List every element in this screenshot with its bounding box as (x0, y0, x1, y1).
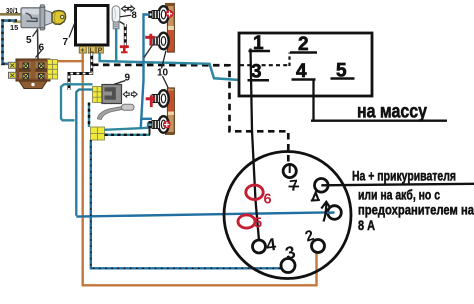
wire blue dotted from block down to circle term3 (91, 140, 281, 268)
wire striped from box7 middle terminal (90, 53, 93, 75)
svg-text:6: 6 (39, 43, 45, 54)
wire 30/1 (olive) (0, 13, 22, 16)
wire teal block to horn (105, 124, 153, 130)
wire checkered block to horn (105, 134, 151, 136)
terminal 3 (281, 259, 295, 273)
wire to +12V text (321, 184, 474, 186)
horn B2 (148, 116, 168, 133)
wire switch to relay (37, 29, 40, 59)
relay left pins (9, 62, 17, 68)
lever (steering stalk) (97, 107, 122, 120)
wire teal pins outer loop (61, 84, 93, 120)
horns 10: bottom assembly bracket (165, 88, 174, 135)
svg-text:7: 7 (63, 37, 69, 48)
relay right pin block (48, 60, 58, 80)
terminal 2 (312, 240, 325, 253)
label 5 + leader (33, 30, 38, 37)
svg-text:5: 5 (254, 216, 262, 232)
ignition switch 5 (21, 5, 66, 30)
terminal 4 (253, 240, 266, 253)
svg-text:6: 6 (264, 192, 272, 208)
svg-text:30/1: 30/1 (6, 6, 18, 15)
wire blue-black checkered from left edge (3, 21, 18, 64)
horn A1 plus terminal (166, 10, 174, 18)
terminal 7 (283, 164, 296, 177)
box 1-5 (239, 33, 372, 96)
ground red horn B1 (146, 95, 155, 107)
svg-text:5: 5 (26, 35, 32, 46)
horns 10: top assembly bracket (165, 3, 174, 52)
connector 9 (93, 85, 122, 104)
terminal 1 (blue arrow) (328, 206, 342, 220)
label 10 + leaders (162, 51, 167, 69)
glyph d (311, 193, 320, 201)
horn B1 (152, 90, 169, 107)
wire checkered from pin9 down to block (88, 103, 90, 128)
svg-text:8: 8 (132, 10, 137, 21)
horn B2 plus terminal (163, 121, 171, 129)
wire from 4 to massa underline (312, 80, 314, 122)
wire black from 1 to circle terminal 4 (251, 49, 260, 241)
wire teal lamp down (115, 29, 118, 62)
ground red horn A2 (145, 34, 154, 46)
label 9 + leader (114, 81, 126, 85)
svg-text:15: 15 (10, 23, 18, 32)
lamp arrows (122, 6, 135, 12)
wire blue main horizontal to circle (76, 212, 327, 216)
terminal 6 red (246, 185, 263, 199)
relay contacts (23, 63, 44, 79)
svg-text:10: 10 (157, 68, 169, 79)
big circle connector (224, 152, 351, 279)
connector 9 arrows (123, 91, 137, 97)
wire orange relay to vertical (58, 60, 85, 62)
svg-text:или на акб, но с: или на акб, но с (358, 187, 440, 203)
horn A2 (152, 33, 169, 50)
svg-text:8 А: 8 А (358, 217, 375, 233)
lamp 8 (112, 6, 120, 29)
box 7 (76, 6, 109, 46)
label 8 + leader (120, 15, 131, 17)
terminal d (top right) (315, 179, 329, 193)
wire dashed main horizontal (92, 65, 288, 170)
label 7 + leader (69, 21, 76, 38)
wire teal pins inner (76, 90, 92, 216)
svg-text:На + прикуривателя: На + прикуривателя (352, 168, 456, 184)
svg-text:предохранителем на: предохранителем на (358, 202, 474, 218)
key (52, 11, 66, 25)
wire blue horn top to bottom (141, 15, 150, 128)
svg-text:9: 9 (125, 73, 131, 84)
wire teal from box7 right terminal (100, 53, 255, 81)
svg-text:на массу: на массу (357, 102, 427, 123)
label 6 + leader (36, 51, 42, 58)
junction block (yellow 2x2) (91, 127, 105, 140)
wire striped lamp to ground (120, 22, 126, 26)
relay 6 (9, 59, 58, 89)
terminal 5 red (238, 215, 255, 228)
wire 15 (yellow-olive) (13, 20, 23, 23)
ground red (lamp) (120, 45, 129, 53)
wire orange vertical (box7 + terminal down to bottom) (83, 53, 317, 285)
dashed link 3-2 (240, 64, 290, 66)
wire horn stub to teal main (144, 45, 153, 58)
horn A1 (148, 6, 168, 23)
wire striped branch left (69, 74, 92, 91)
box 7 terminals (79, 47, 103, 54)
